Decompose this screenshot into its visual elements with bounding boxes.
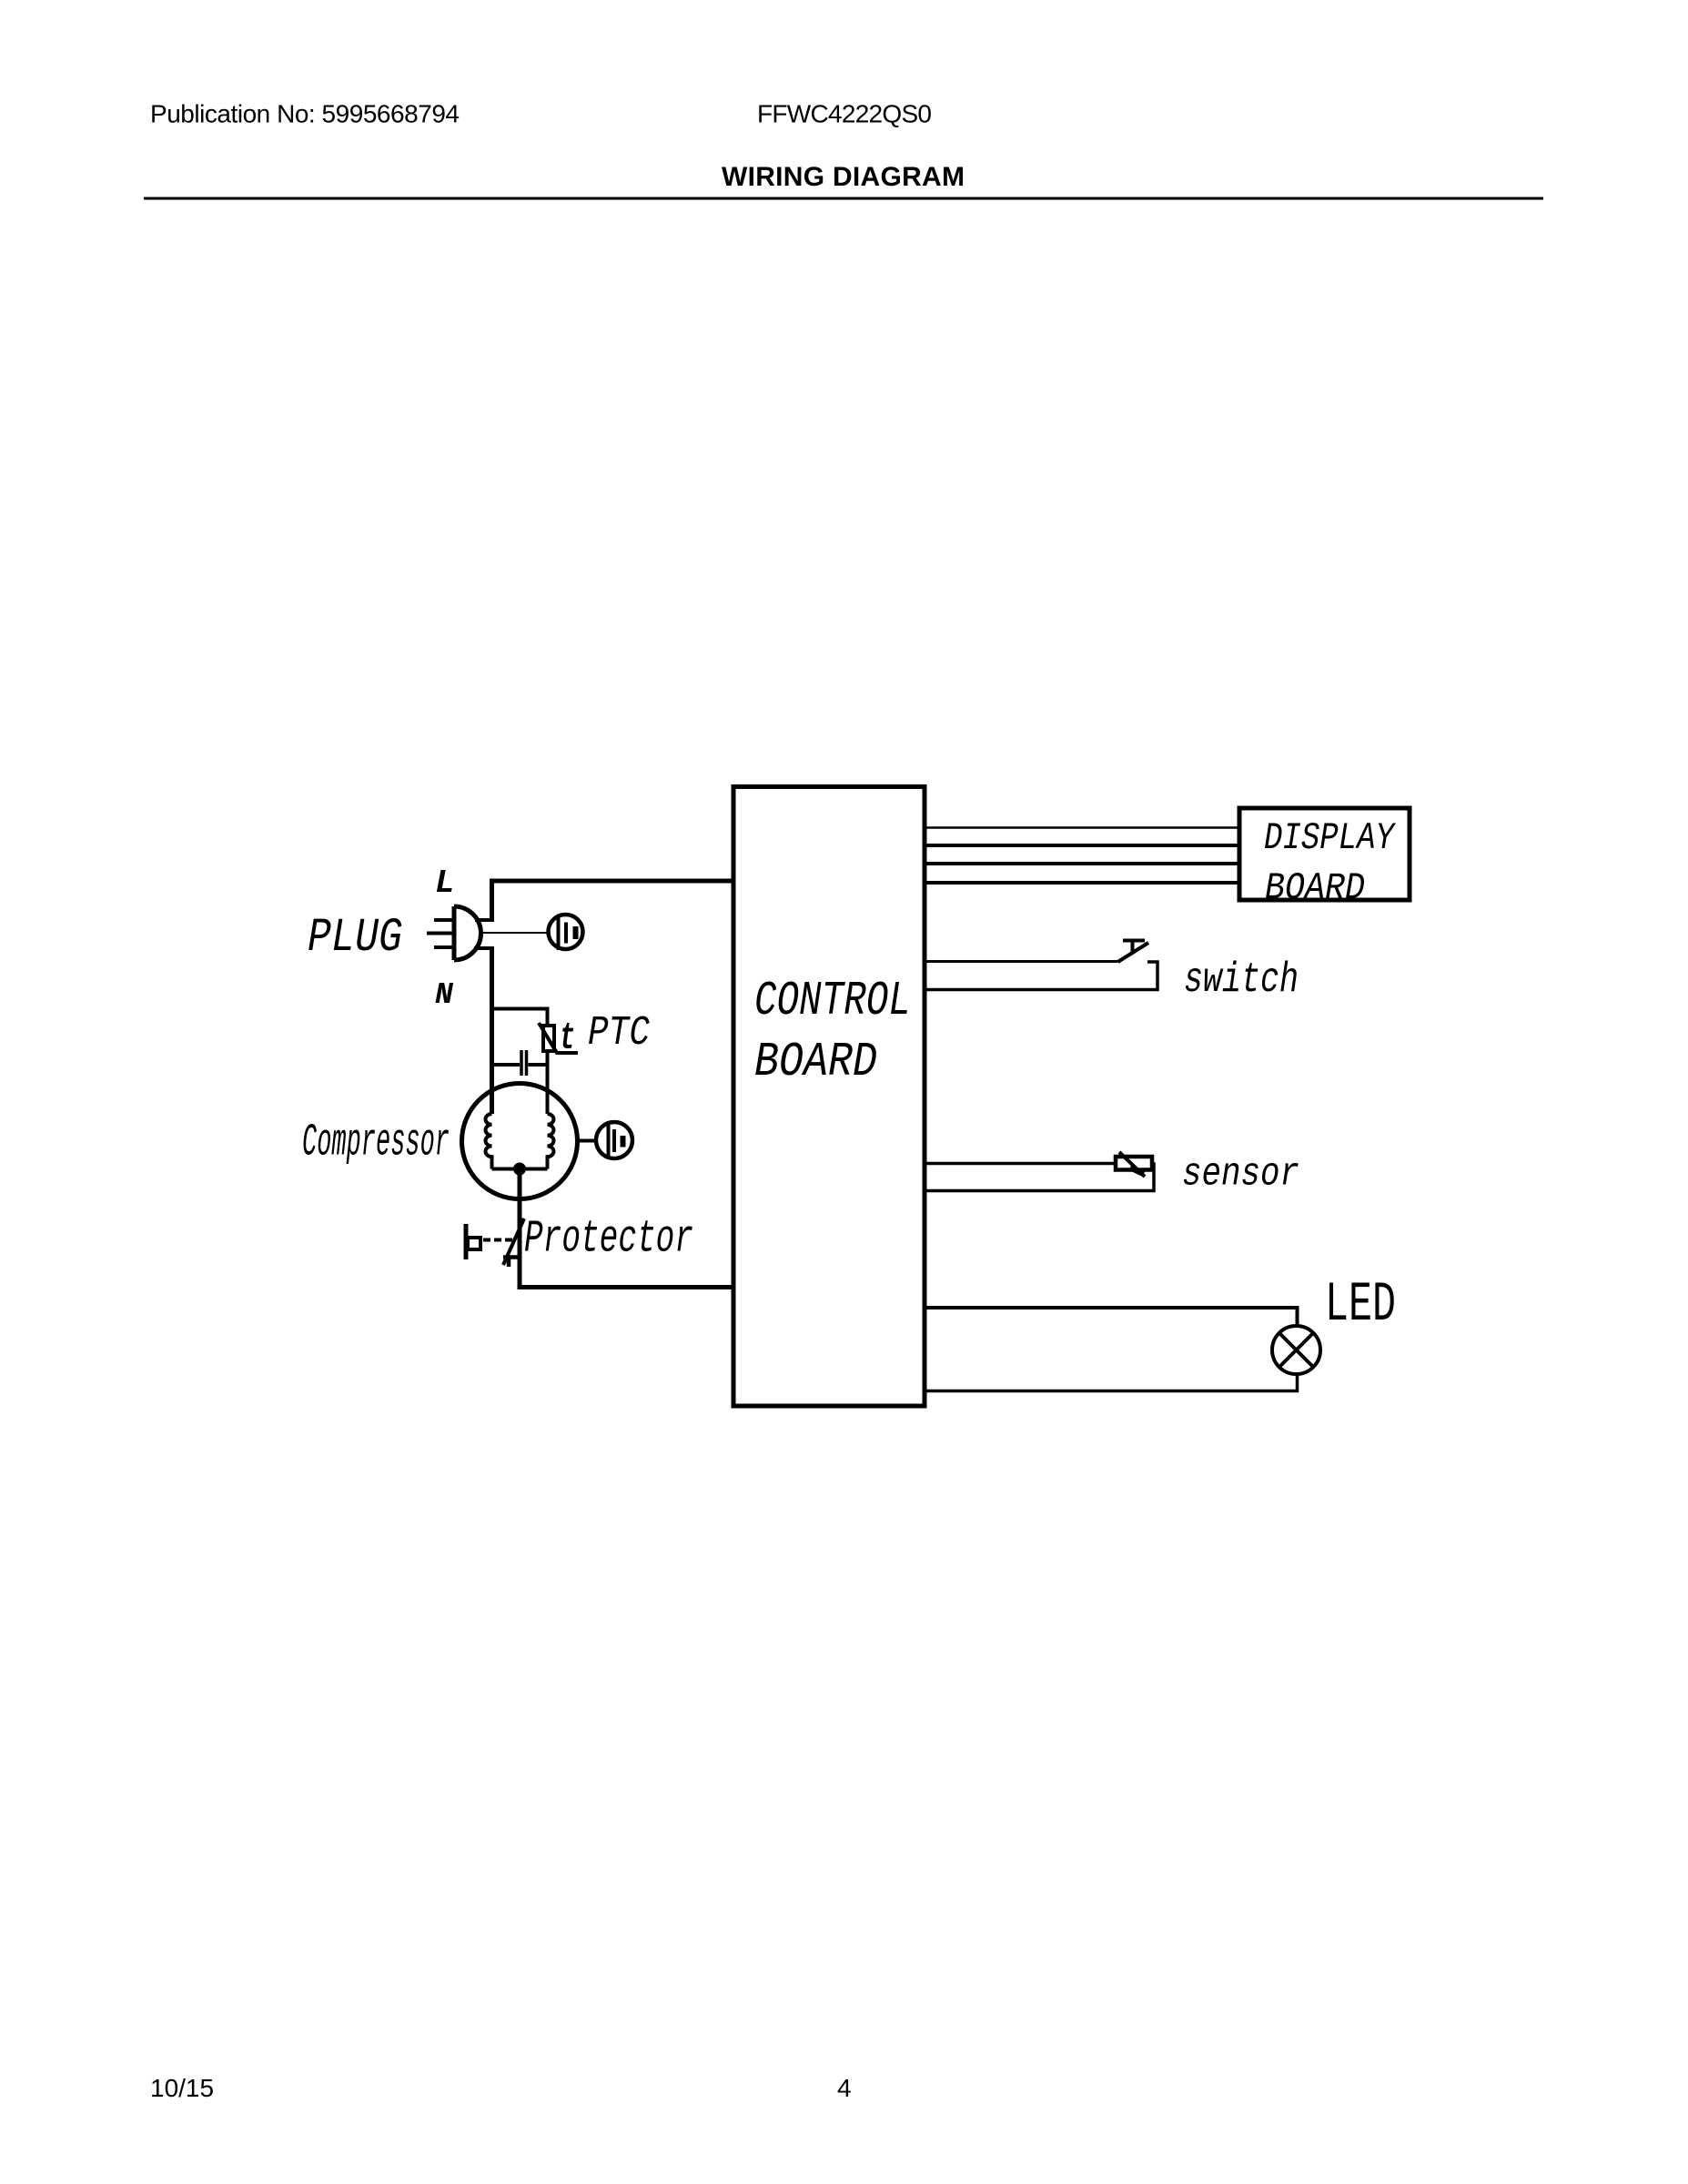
terminal E2 chord bbox=[607, 1122, 611, 1158]
protector slash foot bbox=[503, 1258, 521, 1268]
terminal E1 bar bbox=[573, 926, 579, 939]
svg-text:sensor: sensor bbox=[1182, 1152, 1299, 1198]
protector dashed link bbox=[483, 1239, 515, 1242]
plug prong middle bbox=[427, 932, 452, 935]
wire LED bottom bbox=[925, 1374, 1298, 1391]
PTC resistor RT2 body bbox=[543, 1026, 554, 1051]
wire PTC to cap junction bbox=[546, 1051, 550, 1114]
wire switch top bbox=[925, 960, 1118, 963]
LED lamp cross bbox=[1279, 1333, 1313, 1367]
control board U1 bbox=[733, 787, 925, 1407]
svg-text:DISPLAY: DISPLAY bbox=[1264, 816, 1396, 860]
svg-text:CONTROL: CONTROL bbox=[754, 974, 911, 1028]
svg-text:FFWC4222QS0: FFWC4222QS0 bbox=[757, 100, 932, 128]
capacitor C1 right plate bbox=[525, 1050, 529, 1076]
title rule bbox=[144, 197, 1543, 200]
coil main winding bbox=[485, 1114, 491, 1169]
wire display bus 2 bbox=[925, 844, 1239, 847]
wire display bus 4 bbox=[925, 881, 1239, 885]
PTC diagonal bbox=[539, 1023, 578, 1053]
svg-text:N: N bbox=[435, 978, 454, 1012]
wire L top bbox=[490, 879, 733, 884]
terminal E1 slot bbox=[564, 923, 568, 944]
terminal E1 circle bbox=[549, 915, 583, 949]
svg-text:BOARD: BOARD bbox=[1265, 866, 1365, 910]
wire LED top bbox=[925, 1308, 1298, 1326]
svg-text:Compressor: Compressor bbox=[302, 1117, 450, 1169]
terminal E2 bar bbox=[621, 1136, 626, 1148]
wire compressor common down bbox=[518, 1175, 522, 1288]
svg-text:WIRING DIAGRAM: WIRING DIAGRAM bbox=[722, 162, 965, 192]
sensor RT1 arrow bbox=[1119, 1152, 1145, 1177]
protector contact box bbox=[468, 1238, 480, 1249]
switch S1 bracket bbox=[925, 962, 1157, 990]
wire bottom return bbox=[520, 1285, 733, 1288]
wire plug tip to terminal bbox=[480, 932, 548, 934]
switch S1 actuator stem bbox=[1131, 942, 1135, 953]
protector slash bbox=[503, 1218, 524, 1265]
terminal E2 slot bbox=[612, 1129, 616, 1152]
wire plug bottom stub bbox=[474, 946, 494, 950]
sensor bracket bbox=[925, 1164, 1154, 1191]
capacitor C1 right lead bbox=[529, 1063, 548, 1067]
svg-text:Publication No: 5995668794: Publication No: 5995668794 bbox=[150, 100, 460, 128]
switch S1 lever bbox=[1118, 943, 1149, 962]
wire L vertical bbox=[490, 884, 494, 921]
wire sensor top bbox=[925, 1162, 1116, 1166]
switch S1 actuator bar bbox=[1123, 939, 1145, 943]
svg-text:t: t bbox=[560, 1016, 575, 1060]
wire winding bottom bbox=[492, 1168, 548, 1171]
LED lamp circle bbox=[1272, 1326, 1320, 1374]
plug P1 body bbox=[454, 906, 481, 960]
capacitor C1 left plate bbox=[520, 1050, 523, 1076]
display board bbox=[1239, 808, 1410, 900]
control board label bbox=[754, 974, 911, 1089]
display board label bbox=[1264, 816, 1396, 910]
svg-text:Protector: Protector bbox=[524, 1214, 693, 1266]
svg-text:switch: switch bbox=[1184, 956, 1299, 1004]
svg-text:PTC: PTC bbox=[588, 1010, 650, 1057]
svg-text:L: L bbox=[435, 864, 455, 902]
plug prong top bbox=[434, 918, 452, 922]
svg-text:10/15: 10/15 bbox=[150, 2074, 214, 2102]
svg-text:4: 4 bbox=[837, 2074, 852, 2102]
terminal E2 circle bbox=[596, 1122, 632, 1158]
compressor M1 shell bbox=[462, 1084, 578, 1199]
protector contact bracket bbox=[464, 1224, 469, 1259]
plug prong bottom bbox=[434, 945, 452, 949]
wire N vertical bbox=[490, 948, 494, 1114]
wire display bus 1 bbox=[925, 826, 1239, 829]
svg-text:BOARD: BOARD bbox=[754, 1035, 877, 1089]
wire display bus 3 bbox=[925, 862, 1239, 865]
junction dot bbox=[513, 1163, 526, 1176]
terminal E1 chord bbox=[557, 915, 561, 950]
sensor RT1 arrowhead bbox=[1130, 1168, 1144, 1174]
coil start winding bbox=[548, 1114, 554, 1169]
svg-text:PLUG: PLUG bbox=[308, 911, 402, 965]
capacitor C1 left lead bbox=[492, 1063, 521, 1067]
sensor RT1 body bbox=[1116, 1157, 1152, 1170]
wire compressor to terminal bbox=[577, 1139, 596, 1143]
wire PTC branch top bbox=[492, 1009, 548, 1026]
wire plug top stub bbox=[475, 918, 494, 922]
svg-text:LED: LED bbox=[1325, 1274, 1396, 1337]
